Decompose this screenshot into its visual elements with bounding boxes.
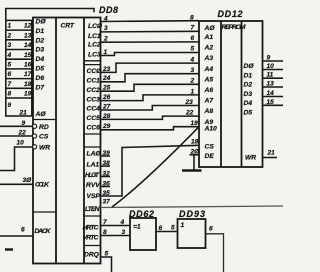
svg-text:REPROM: REPROM [222, 24, 246, 31]
svg-text:DRQ: DRQ [84, 252, 100, 259]
svg-text:4: 4 [120, 219, 125, 226]
wire CC6 to A10 [101, 120, 200, 130]
DD8 right labels LA0 LA1 HLGT RVV VSP LTEN [85, 151, 101, 214]
wire CS from left edge, pin 22 [0, 130, 33, 137]
svg-text:5: 5 [105, 251, 109, 258]
svg-text:32: 32 [103, 171, 111, 178]
stub LA1 pin 38 [101, 160, 111, 167]
DD12 pin label CS, pin 18 [191, 139, 214, 151]
svg-text:A5: A5 [204, 76, 214, 83]
svg-text:D5: D5 [36, 66, 45, 73]
svg-text:24: 24 [102, 75, 111, 82]
svg-text:3: 3 [104, 25, 108, 32]
DD8 pin label CS with bubble [33, 134, 49, 141]
wire LC1 to A1 [101, 24, 200, 32]
svg-text:7: 7 [103, 219, 107, 226]
svg-text:1: 1 [191, 88, 195, 95]
svg-text:DD93: DD93 [179, 209, 205, 219]
wire CC4 to A8 [101, 99, 200, 111]
svg-text:14: 14 [24, 42, 32, 49]
svg-text:15: 15 [267, 99, 275, 106]
IC DD12 body (REPROM) [199, 21, 263, 167]
DD8 pin label WR with bubble [33, 144, 51, 151]
wire DRQ pin 5 down to bottom edge [101, 251, 112, 272]
svg-text:D1: D1 [244, 72, 253, 79]
svg-text:A10: A10 [204, 126, 218, 133]
svg-text:D5: D5 [244, 109, 253, 116]
svg-text:=1: =1 [133, 224, 141, 231]
svg-text:8: 8 [103, 229, 107, 236]
svg-text:8: 8 [190, 15, 194, 22]
DD8 right labels LC0-LC3 [88, 23, 103, 59]
svg-text:DACK: DACK [35, 228, 52, 235]
svg-text:6: 6 [191, 35, 195, 42]
DD8 right labels CC0-CC6 [87, 68, 103, 131]
svg-text:22: 22 [18, 130, 27, 137]
svg-text:D1: D1 [36, 28, 45, 35]
svg-text:12: 12 [24, 23, 32, 30]
DD12 pin label OE pin 20 with ground [190, 149, 215, 170]
svg-text:13: 13 [267, 81, 275, 88]
svg-text:3: 3 [191, 67, 195, 74]
svg-text:LCØ: LCØ [88, 23, 103, 30]
svg-text:25: 25 [102, 85, 111, 92]
stub HLGT pin 32 [101, 171, 111, 178]
svg-text:A2: A2 [204, 45, 214, 52]
svg-text:37: 37 [103, 199, 111, 206]
svg-text:LTEN: LTEN [85, 206, 100, 213]
svg-text:A6: A6 [204, 87, 214, 94]
wire D0 output pin 9 [263, 54, 284, 61]
stray dash mark [5, 248, 13, 250]
svg-text:13: 13 [24, 32, 32, 39]
wire D1 output pin 10 [263, 63, 284, 70]
svg-text:RVV: RVV [86, 182, 100, 189]
svg-text:CC2: CC2 [87, 87, 101, 94]
svg-text:5: 5 [8, 62, 12, 69]
svg-text:2: 2 [190, 78, 195, 85]
wire CC5 to A9 [101, 110, 200, 120]
svg-text:WR: WR [39, 144, 50, 151]
gate DD93 body inverter [178, 219, 206, 248]
svg-text:17: 17 [24, 71, 32, 78]
svg-text:HLGT: HLGT [85, 172, 100, 179]
svg-text:D7: D7 [36, 84, 45, 91]
svg-text:D6: D6 [36, 75, 45, 82]
svg-text:A8: A8 [204, 108, 214, 115]
wire LC3 to A3 [101, 46, 200, 56]
svg-text:CC1: CC1 [87, 78, 101, 85]
wire CC2 to A6 [101, 78, 200, 92]
svg-text:23: 23 [185, 99, 194, 106]
wire LC0 to A0 [101, 15, 200, 23]
DD8 data labels D0-D7 [36, 19, 47, 92]
svg-text:DD8: DD8 [99, 5, 118, 15]
svg-text:CCØ: CCØ [87, 68, 103, 75]
svg-text:16: 16 [24, 62, 32, 69]
DD12 address labels A0-A10 [204, 25, 218, 132]
wire WR stepped from left edge, pin 10 [0, 140, 33, 171]
wire VSP pin 35 to CS of DD12 [101, 145, 200, 197]
svg-text:CC5: CC5 [87, 115, 101, 122]
DD12 data labels D0-D5 [244, 63, 255, 116]
svg-text:1: 1 [104, 49, 108, 56]
svg-text:AØ: AØ [35, 111, 47, 118]
wire DD62 out pin 6 to DD93 pin 5 [156, 225, 178, 233]
svg-text:1: 1 [181, 222, 185, 229]
svg-text:21: 21 [19, 110, 28, 117]
svg-text:LC3: LC3 [88, 52, 101, 59]
ground bar [182, 169, 202, 172]
wire CC1 to A5 [101, 67, 200, 82]
svg-text:CRT: CRT [61, 23, 75, 30]
wire LTEN pin 37 long to right edge [101, 199, 284, 208]
svg-text:9: 9 [22, 120, 26, 127]
wire HRTC pin 7 to DD62 pin 4 [101, 219, 131, 226]
wire top loop over DD8 [6, 9, 94, 22]
wire LC2 to A2 [101, 35, 200, 43]
wire CC3 to A7 [101, 88, 200, 101]
wire RD from left edge, pin 9 [0, 120, 33, 127]
svg-text:D3: D3 [36, 47, 45, 54]
wire DACK from left edge, pin 6 [0, 227, 33, 237]
DD8 right column separators [84, 61, 101, 246]
svg-text:DØ: DØ [244, 63, 255, 70]
stub RVV pin 36 [101, 181, 111, 188]
cable core numbers 1-9 [7, 23, 12, 109]
svg-text:7: 7 [8, 81, 12, 88]
stub LA0 pin 39 [101, 150, 111, 157]
svg-text:CCLK: CCLK [35, 182, 50, 189]
svg-text:9: 9 [8, 102, 12, 109]
svg-text:CC3: CC3 [87, 96, 101, 103]
svg-text:10: 10 [17, 140, 25, 147]
svg-text:1: 1 [8, 23, 12, 30]
svg-text:D4: D4 [36, 56, 45, 63]
svg-text:LC2: LC2 [88, 42, 101, 49]
svg-text:DD12: DD12 [218, 9, 243, 19]
svg-text:A7: A7 [204, 98, 214, 105]
svg-text:19: 19 [24, 91, 32, 98]
svg-text:CC6: CC6 [87, 125, 101, 132]
svg-text:D4: D4 [244, 100, 253, 107]
svg-text:A4: A4 [204, 66, 214, 73]
svg-text:D2: D2 [36, 37, 45, 44]
wire curve LTEN to A10 [112, 127, 199, 207]
svg-text:CC4: CC4 [87, 106, 101, 113]
svg-text:3: 3 [8, 42, 12, 49]
svg-text:LAØ: LAØ [87, 151, 102, 158]
svg-text:VRTC: VRTC [83, 235, 99, 242]
svg-text:WR: WR [245, 155, 256, 162]
svg-text:6: 6 [159, 225, 163, 232]
svg-text:8: 8 [8, 91, 12, 98]
svg-text:A1: A1 [204, 34, 214, 41]
DD8 left column separators [33, 120, 56, 213]
svg-text:26: 26 [102, 94, 111, 101]
op IC DD8 body (CRT controller) [33, 18, 101, 264]
svg-text:19: 19 [191, 120, 199, 127]
svg-text:9: 9 [267, 54, 271, 61]
svg-text:2: 2 [7, 32, 12, 39]
svg-text:6: 6 [8, 71, 12, 78]
svg-text:3Ø: 3Ø [23, 177, 33, 184]
svg-text:29: 29 [102, 123, 111, 130]
wire D5 output pin 15 [263, 99, 284, 106]
wire CCLK from left edge, pin 30 [0, 177, 33, 184]
svg-text:3: 3 [122, 229, 126, 236]
svg-text:RD: RD [39, 124, 49, 131]
svg-text:11: 11 [267, 72, 274, 79]
svg-text:5: 5 [171, 225, 175, 232]
DD8 right labels HRTC VRTC DRQ [83, 225, 100, 259]
svg-text:2: 2 [103, 36, 108, 43]
pin numbers 12-19 and 21 [19, 23, 32, 117]
DD12 pin label WR pin 21 [245, 150, 277, 162]
svg-text:VSP: VSP [87, 193, 101, 200]
svg-text:CS: CS [39, 134, 49, 141]
svg-text:4: 4 [190, 57, 195, 64]
svg-text:15: 15 [24, 52, 32, 59]
wire D2 output pin 11 [263, 72, 284, 79]
svg-text:7: 7 [191, 24, 195, 31]
svg-text:23: 23 [102, 66, 111, 73]
connector cable box rows 1-9 [6, 20, 32, 116]
svg-text:18: 18 [191, 139, 199, 146]
svg-text:4: 4 [7, 52, 12, 59]
svg-text:35: 35 [103, 190, 111, 197]
wire VRTC pin 8 to DD62 pin 3 [101, 229, 131, 236]
svg-text:10: 10 [267, 63, 275, 70]
svg-text:DØ: DØ [36, 19, 47, 26]
svg-text:22: 22 [185, 110, 194, 117]
wire DD93 out pin 6 down to bottom [206, 226, 224, 272]
svg-text:LC1: LC1 [88, 33, 101, 40]
wire CC0 to A4 [101, 57, 200, 73]
svg-text:28: 28 [102, 113, 111, 120]
wire D4 output pin 14 [263, 90, 284, 97]
svg-text:6: 6 [209, 226, 213, 233]
svg-text:HRTC: HRTC [83, 225, 99, 232]
wire D3 output pin 13 [263, 81, 284, 88]
svg-text:5: 5 [191, 46, 195, 53]
svg-text:DE: DE [205, 153, 215, 160]
svg-text:14: 14 [267, 90, 275, 97]
svg-text:36: 36 [103, 181, 111, 188]
svg-text:18: 18 [24, 81, 32, 88]
svg-text:CS: CS [205, 144, 215, 151]
gate DD62 body XOR [130, 218, 156, 250]
svg-text:D2: D2 [244, 82, 253, 89]
svg-text:D3: D3 [244, 91, 253, 98]
DD8 pin label RD with bubble [33, 124, 49, 131]
svg-text:A3: A3 [204, 55, 214, 62]
svg-text:6: 6 [21, 227, 25, 234]
svg-text:27: 27 [102, 103, 111, 110]
svg-text:39: 39 [103, 150, 111, 157]
svg-text:LA1: LA1 [87, 162, 100, 169]
svg-text:AØ: AØ [204, 25, 216, 32]
svg-text:38: 38 [103, 160, 111, 167]
svg-text:4: 4 [103, 15, 108, 22]
svg-text:21: 21 [267, 150, 276, 157]
